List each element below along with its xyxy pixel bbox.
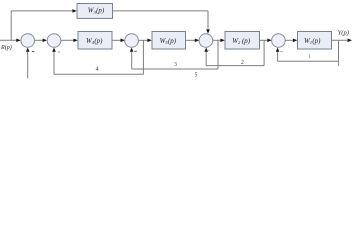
block W2 [225,32,260,50]
wire C1 to C2 [35,39,43,41]
arrow into C3 bottom [130,48,134,52]
wire loop 4 horizontal [54,73,143,75]
loop 5 dangling feedback into C1 [27,51,29,79]
svg-text:4: 4 [96,66,99,72]
arrow into W2 [220,39,224,43]
arrow into C4 top [206,29,210,33]
summer C2 [47,34,61,48]
wire loop 2 up into C4 [205,51,207,66]
wire W1 output [332,39,349,41]
arrow into W4 [73,39,77,43]
arrow output Y(p) [348,39,352,43]
svg-text:W1(p): W1(p) [304,38,321,45]
arrow into C4 bottom [204,48,208,52]
summer C5 [272,34,286,48]
arrow into C4 [195,39,199,43]
arrow into C2 [43,39,47,43]
wire loop 4 up into C2 [53,51,55,75]
svg-text:W5(p): W5(p) [160,38,177,45]
loop 3 takeoff between C4 and W2 [217,40,219,69]
arrow into C3 [121,39,125,43]
summer C1 [21,34,35,48]
block W1 [298,32,332,50]
svg-text:W3(p): W3(p) [88,8,105,15]
wire R(p) input [0,39,17,41]
arrow into summer C1 [16,39,20,43]
arrow into W5 [147,39,151,43]
loop 1 takeoff after W1 [338,40,340,61]
arrow into W1 [293,39,297,43]
loop 4 takeoff between C3 and W5 [142,40,144,74]
block W3 [77,4,113,19]
block W5 [152,32,186,50]
svg-text:5: 5 [195,72,198,78]
wire C3 to W5 [138,39,147,41]
wire C4 to W2 [213,39,221,41]
arrow into C2 bottom [52,48,56,52]
minus at C1 [32,50,34,53]
svg-text:3: 3 [174,62,177,68]
wire C5 to W1 [285,39,293,41]
loop 1 overshoot tail [338,61,340,66]
arrow into C5 bottom [276,48,280,52]
minus at C3 [134,50,136,53]
wire C2 to W4 [61,39,74,41]
wire W5 to C4 [186,39,196,41]
wire W3 output top [113,10,209,12]
svg-text:1: 1 [308,54,311,60]
wire loop 1 up into C5 [277,51,279,62]
minus at C5 [280,50,282,53]
svg-text:W2 (p): W2 (p) [232,38,251,45]
loop 2 takeoff between W2 and C5 [263,40,265,65]
node A takeoff to W3 [10,11,12,41]
svg-text:W4(p): W4(p) [86,38,103,45]
summer C4 [199,34,213,48]
wire W3 down to summer C4 [207,11,209,30]
arrow into C1 bottom [26,48,30,52]
arrow into C5 [267,39,271,43]
wire loop 2 horizontal [206,65,264,67]
wire loop 1 horizontal [278,60,339,62]
summer C3 [125,34,139,48]
svg-text:Y(p): Y(p) [338,30,349,37]
wire loop 3 up into C3 [131,51,133,69]
wire node A to W3 [11,10,72,12]
block W4 [78,32,112,50]
arrow into W3 [72,9,76,13]
wire loop 3 horizontal [132,68,218,70]
svg-text:2: 2 [241,60,244,66]
svg-text:R(p): R(p) [0,44,12,51]
wire W2 to C5 [260,39,268,41]
wire W4 to C3 [112,39,121,41]
minus at C2 [58,51,60,54]
minus at C4 [208,49,210,52]
